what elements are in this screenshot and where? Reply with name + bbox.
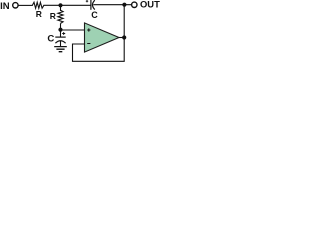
terminal IN (open circle) <box>13 3 18 8</box>
ground <box>54 47 67 52</box>
wire output node up to top rail <box>123 5 125 38</box>
capacitor C (shunt) curved plate <box>55 41 65 43</box>
junction output node <box>122 35 126 39</box>
wire node B down to capacitor C <box>60 30 62 37</box>
svg-text:C: C <box>91 10 98 20</box>
svg-text:C: C <box>47 34 54 45</box>
svg-text:OUT: OUT <box>140 0 160 10</box>
capacitor C (feedback) curved plate <box>93 0 95 9</box>
svg-text:IN: IN <box>0 1 10 12</box>
wire node B to op-amp noninverting input <box>61 29 85 31</box>
resistor R (vertical) <box>58 10 63 23</box>
op-amp plus input marking <box>87 28 90 31</box>
wire vertical resistor to node B <box>60 23 62 30</box>
resistor R (horizontal, input) <box>32 2 44 8</box>
capacitor C (shunt) plus sign <box>62 32 65 35</box>
svg-text:R: R <box>36 9 42 19</box>
capacitor C (feedback) straight plate <box>90 0 92 10</box>
wire feedback capacitor to top rail node <box>93 4 131 6</box>
op-amp U1 <box>85 23 120 52</box>
svg-text:R: R <box>50 11 56 21</box>
feedback wire output to inverting input <box>73 38 125 62</box>
junction top rail node <box>122 3 126 7</box>
wire op-amp output to node OUT <box>119 37 124 39</box>
junction node B <box>58 28 62 32</box>
wire node A down to vertical resistor <box>60 5 62 11</box>
wire capacitor to ground <box>60 41 62 46</box>
junction node A <box>58 3 62 7</box>
wire from resistor R to node A <box>43 4 90 6</box>
capacitor C (feedback) plus sign <box>86 0 88 2</box>
terminal OUT (open circle) <box>132 2 137 7</box>
capacitor C (shunt) straight plate <box>55 36 65 38</box>
op-amp minus input marking <box>87 43 90 45</box>
wire from IN terminal to resistor R <box>18 4 32 6</box>
